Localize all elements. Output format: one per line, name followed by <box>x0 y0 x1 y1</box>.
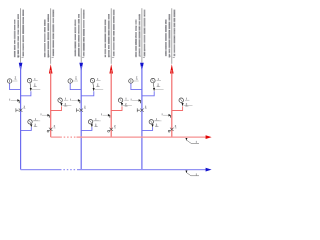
flow arrow return R3 (up) <box>170 64 174 73</box>
label riser R3 size marks <box>169 56 175 58</box>
pipe tag on R3 <box>162 113 171 117</box>
label riser R1 size marks <box>48 56 54 58</box>
pump P2b size label 1/2 <box>94 118 98 127</box>
wire return main (red) dashed segment <box>60 136 76 138</box>
label riser R2 right text <box>112 10 115 57</box>
wire return main (red) solid right segment <box>77 136 207 138</box>
pump P1r body <box>58 98 62 102</box>
wire supply main (blue) solid left segment <box>21 169 60 171</box>
thermometer T1 stem arrowhead <box>30 88 32 91</box>
thermometer T1 stem <box>29 83 32 89</box>
flow arrow supply S3 (down) <box>140 63 144 72</box>
pump P3r stem <box>182 102 183 103</box>
thermometer T2 body <box>90 78 94 82</box>
node riser S1 top stub <box>20 8 22 62</box>
pump P2r stem <box>121 102 122 103</box>
pump P2b connection pipe <box>81 127 92 130</box>
pump P2r size label 1/2 <box>124 98 128 107</box>
thermometer T1 leader <box>32 89 41 91</box>
pump P3r body <box>179 98 183 102</box>
pump P2b stem arrowhead <box>91 124 93 127</box>
gauge A1 body <box>7 79 11 83</box>
label riser R2 left text line 2 <box>104 20 106 58</box>
thermometer T2 stem arrowhead <box>93 88 95 91</box>
gauge A3 label 2 <box>136 77 138 80</box>
section flag on supply main <box>186 171 200 176</box>
pump P1b leader <box>32 120 40 122</box>
gauge A3 body <box>129 79 133 83</box>
label riser S2 size marks <box>78 56 84 58</box>
pipe tag on R1 <box>41 113 50 117</box>
valve V2b label 2 <box>84 106 86 109</box>
flow arrow return main (right) <box>206 135 212 139</box>
valve V3b on supply riser <box>137 108 144 112</box>
pump P3b connection pipe <box>142 127 153 130</box>
label riser R3 left text line 1 <box>168 14 170 58</box>
label riser S1 size marks <box>18 56 24 58</box>
valve V2r on return riser <box>108 128 113 132</box>
pump P1r stem arrowhead <box>60 103 62 106</box>
node riser S2 top stub <box>80 8 82 62</box>
pipe tag on S1 <box>10 99 20 104</box>
flow arrow return R1 (up) <box>49 64 53 73</box>
wire supply riser S2 <box>80 66 82 170</box>
gauge A3 connection pipe <box>131 83 142 90</box>
gauge A1 label 2 <box>15 77 17 80</box>
flow arrow supply S1 (down) <box>19 63 23 72</box>
pipe tag on S3 <box>131 99 141 104</box>
pump P1b body <box>28 120 32 124</box>
valve V2b on supply riser <box>77 108 84 112</box>
pump P3r leader <box>184 105 193 107</box>
branch pipe to thermowell T1 <box>21 91 31 96</box>
wire supply riser S1 <box>20 66 22 170</box>
pump P1b connection pipe <box>21 127 32 130</box>
thermometer T3 body <box>151 78 155 82</box>
thermometer T2 stem <box>92 83 95 89</box>
thermometer T3 leader <box>155 89 164 91</box>
gauge A2 connection pipe <box>70 83 81 90</box>
pump P1r stem <box>60 102 61 103</box>
pipe tag on R2 <box>102 113 111 117</box>
label riser S3 left text line 1 <box>138 14 140 56</box>
gauge A1 connection pipe <box>10 83 21 90</box>
label riser R3 right text <box>173 10 175 57</box>
pump P1b stem arrowhead <box>30 124 32 127</box>
pump P3b stem arrowhead <box>152 124 154 127</box>
pump P3r stem arrowhead <box>182 103 184 106</box>
node riser R1 top stub <box>50 8 52 64</box>
pump P3r size label 1/2 <box>185 98 189 107</box>
pump P1r size label 1/2 <box>64 98 68 107</box>
pump P2b stem <box>90 123 93 126</box>
label riser S1 right text <box>22 10 25 57</box>
pump P3b size label 1/2 <box>155 118 159 127</box>
pump P2r body <box>118 98 122 102</box>
wire supply main (blue) solid right segment <box>78 169 207 171</box>
valve V3r on return riser <box>168 128 173 132</box>
valve V1r on return riser <box>47 128 52 132</box>
gauge A2 body <box>68 79 72 83</box>
valve V3b label 2 <box>145 106 147 109</box>
label riser R2 left text line 1 <box>108 14 110 57</box>
label riser S3 size marks <box>139 56 145 58</box>
pipe tag on S2 <box>70 99 80 104</box>
valve V1r label 2 <box>54 125 56 128</box>
label riser S2 left text line 1 <box>77 14 80 56</box>
wire return riser R2 <box>110 70 112 137</box>
label riser R1 right text <box>52 10 55 57</box>
flow arrow supply S2 (down) <box>79 63 83 72</box>
branch pipe to thermowell T2 <box>81 91 94 96</box>
flow arrow return R2 (up) <box>109 64 113 73</box>
pump P2r stem arrowhead <box>121 103 123 106</box>
pump P1b stem <box>29 123 32 126</box>
pump P1r connection pipe <box>51 106 62 110</box>
thermometer T1 body <box>27 78 31 82</box>
valve V2r label 2 <box>114 125 116 128</box>
gauge A2 label 2 <box>75 77 77 80</box>
pump P1r leader <box>63 105 72 107</box>
thermometer T2 size label 1/2 <box>96 78 100 87</box>
label riser S2 left text line 2 <box>74 20 77 57</box>
label riser S2 right text <box>83 10 86 57</box>
section flag on return main <box>186 138 200 143</box>
node riser S3 top stub <box>141 8 143 62</box>
valve V1b on supply riser <box>16 108 23 112</box>
wire return riser R1 <box>50 70 52 137</box>
node riser R2 top stub <box>110 8 112 64</box>
wire supply riser S3 <box>141 66 143 170</box>
label riser S3 right text <box>143 10 146 57</box>
label riser R1 left text line 2 <box>43 20 46 58</box>
label riser R2 size marks <box>108 56 114 58</box>
branch pipe to thermowell T3 <box>142 91 154 96</box>
thermometer T2 leader <box>95 89 104 91</box>
gauge A3 leader <box>133 80 139 82</box>
pump P3b leader <box>154 120 162 122</box>
wire return riser R3 <box>171 70 173 137</box>
pump P2r connection pipe <box>111 106 122 110</box>
pump P1b size label 1/2 <box>34 118 38 127</box>
pump P2b body <box>88 120 92 124</box>
label riser S3 left text line 2 <box>135 20 138 58</box>
thermometer T3 stem <box>152 83 155 89</box>
label riser R1 left text line 1 <box>47 14 50 58</box>
pump P2r leader <box>123 105 132 107</box>
gauge A2 leader <box>72 80 78 82</box>
flow arrow supply main (right) <box>206 168 212 172</box>
label riser R3 left text line 2 <box>165 20 167 57</box>
valve V1b label 2 <box>24 106 26 109</box>
thermometer T1 size label 1/2 <box>33 78 37 87</box>
label riser S1 left text line 1 <box>17 14 20 58</box>
gauge A1 leader <box>12 80 18 82</box>
pump P3b stem <box>151 123 154 126</box>
pump P3r connection pipe <box>172 106 183 110</box>
pump P2b leader <box>93 120 101 122</box>
thermometer T3 size label 1/2 <box>157 78 161 87</box>
label riser S1 left text line 2 <box>13 20 16 58</box>
pump P3b body <box>149 120 153 124</box>
valve V3r label 2 <box>175 125 177 128</box>
thermometer T3 stem arrowhead <box>153 88 155 91</box>
wire return main (red) solid left segment <box>51 136 61 138</box>
node riser R3 top stub <box>171 8 173 64</box>
wire supply main (blue) dashed segment <box>60 169 78 171</box>
